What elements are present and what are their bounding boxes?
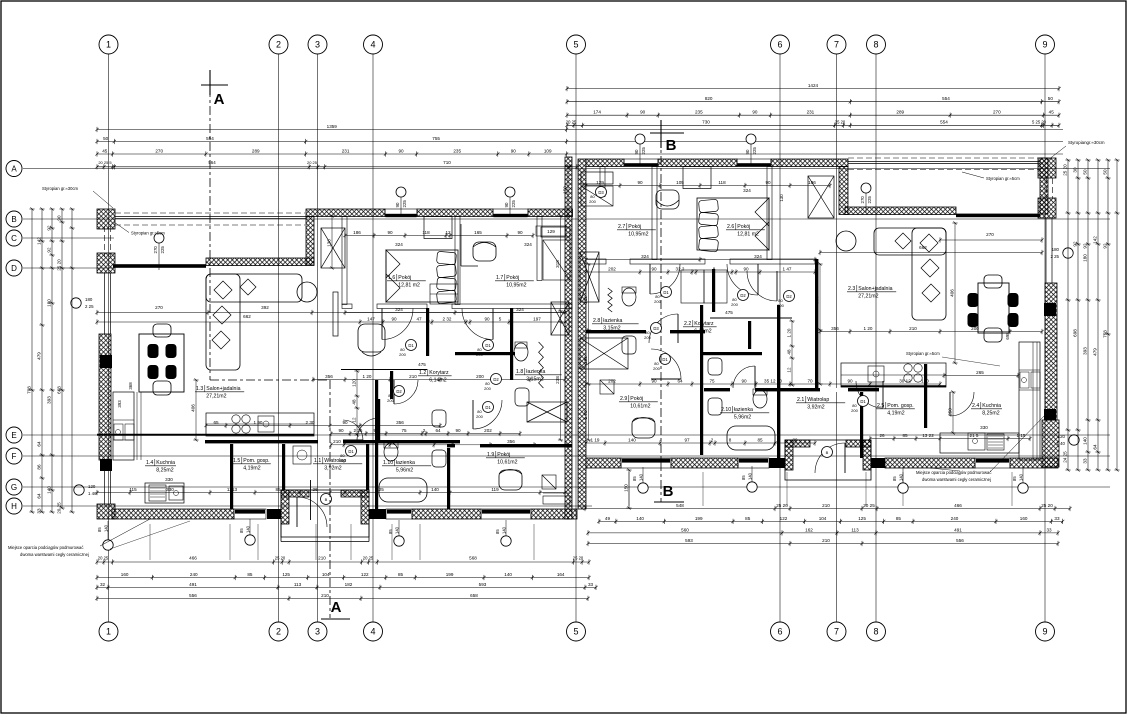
- svg-text:2 25: 2 25: [85, 304, 94, 309]
- svg-text:C: C: [11, 234, 17, 243]
- svg-text:140: 140: [1082, 437, 1087, 445]
- svg-text:1 40: 1 40: [88, 491, 97, 496]
- svg-text:2.3: 2.3: [848, 286, 855, 292]
- svg-text:240: 240: [190, 572, 198, 577]
- svg-text:2 35: 2 35: [354, 428, 363, 433]
- svg-text:2.8: 2.8: [593, 318, 600, 324]
- svg-text:174: 174: [593, 110, 601, 115]
- svg-text:B: B: [325, 497, 328, 502]
- svg-text:270: 270: [153, 246, 158, 254]
- svg-text:Styropian gr.≈30cm: Styropian gr.≈30cm: [42, 186, 79, 191]
- svg-text:Miejsce oparcia podciągów podm: Miejsce oparcia podciągów podmurować: [8, 545, 83, 550]
- svg-text:dwoma warstwami cegły ceramicz: dwoma warstwami cegły ceramicznej: [20, 552, 89, 557]
- svg-text:2 30: 2 30: [306, 420, 315, 425]
- svg-text:12,81 m2: 12,81 m2: [737, 232, 759, 238]
- svg-text:2.5: 2.5: [877, 403, 884, 409]
- svg-text:3,15m2: 3,15m2: [603, 326, 620, 332]
- svg-text:270: 270: [155, 148, 163, 153]
- svg-text:85: 85: [1012, 476, 1017, 481]
- svg-text:B: B: [826, 450, 829, 455]
- svg-text:200: 200: [484, 386, 491, 391]
- svg-text:548: 548: [676, 503, 684, 508]
- svg-text:85: 85: [239, 528, 244, 533]
- svg-text:97: 97: [684, 437, 690, 442]
- svg-text:D1: D1: [408, 343, 414, 348]
- svg-text:49: 49: [605, 516, 611, 521]
- svg-text:24 25: 24 25: [1062, 451, 1067, 463]
- svg-text:90: 90: [745, 149, 750, 154]
- svg-text:F: F: [12, 452, 17, 461]
- svg-text:1.7: 1.7: [496, 275, 503, 281]
- svg-text:406: 406: [190, 404, 195, 412]
- svg-text:5: 5: [573, 40, 578, 50]
- svg-text:33: 33: [588, 582, 594, 587]
- svg-text:197: 197: [533, 316, 541, 321]
- svg-text:393: 393: [46, 396, 51, 404]
- svg-text:łazienka: łazienka: [526, 369, 545, 375]
- svg-text:30: 30: [1072, 167, 1077, 173]
- svg-text:20 25: 20 25: [56, 502, 61, 514]
- svg-text:4: 4: [370, 40, 375, 50]
- svg-text:710: 710: [443, 160, 451, 165]
- svg-text:140: 140: [898, 473, 903, 481]
- svg-text:2.7: 2.7: [618, 224, 625, 230]
- svg-text:4: 4: [370, 627, 375, 637]
- svg-text:658: 658: [470, 593, 478, 598]
- svg-text:50: 50: [1048, 96, 1054, 101]
- svg-text:225: 225: [867, 196, 872, 204]
- svg-text:75: 75: [709, 378, 715, 383]
- svg-text:65: 65: [213, 420, 219, 425]
- svg-text:D2: D2: [493, 377, 499, 382]
- svg-text:406: 406: [949, 289, 954, 297]
- svg-text:10,95m2: 10,95m2: [506, 283, 526, 289]
- svg-text:20 25 5: 20 25 5: [98, 160, 112, 165]
- svg-text:90: 90: [637, 180, 643, 185]
- svg-text:140: 140: [636, 516, 644, 521]
- svg-text:564: 564: [208, 160, 216, 165]
- svg-text:554: 554: [940, 119, 948, 124]
- svg-text:6,14m2: 6,14m2: [694, 329, 711, 335]
- svg-text:85: 85: [97, 527, 102, 532]
- svg-text:210: 210: [321, 593, 329, 598]
- svg-text:D1: D1: [348, 449, 354, 454]
- svg-text:593: 593: [685, 538, 693, 543]
- svg-text:90: 90: [455, 428, 461, 433]
- svg-text:12: 12: [351, 417, 356, 423]
- svg-text:180: 180: [1082, 254, 1087, 262]
- svg-text:20 25: 20 25: [363, 556, 374, 561]
- svg-text:475: 475: [725, 310, 733, 315]
- svg-text:265: 265: [976, 370, 984, 375]
- svg-text:85: 85: [892, 476, 897, 481]
- svg-text:85: 85: [398, 572, 404, 577]
- svg-text:1.10: 1.10: [383, 460, 393, 466]
- svg-text:D3: D3: [653, 326, 659, 331]
- svg-text:1.9: 1.9: [487, 452, 494, 458]
- svg-text:238: 238: [814, 296, 819, 304]
- svg-text:560: 560: [681, 527, 689, 532]
- svg-text:Styropian gr.≈5cm: Styropian gr.≈5cm: [131, 231, 165, 236]
- svg-text:10,95m2: 10,95m2: [628, 232, 648, 238]
- svg-text:H: H: [11, 502, 17, 511]
- svg-text:200: 200: [644, 335, 651, 340]
- svg-text:dwoma warstwami cegły ceramicz: dwoma warstwami cegły ceramicznej: [922, 477, 991, 482]
- svg-text:2.9: 2.9: [620, 396, 627, 402]
- svg-text:2.6: 2.6: [727, 224, 734, 230]
- svg-text:2: 2: [711, 437, 714, 442]
- svg-text:200: 200: [339, 458, 346, 463]
- svg-text:225: 225: [160, 246, 165, 254]
- svg-text:129: 129: [547, 229, 555, 234]
- svg-text:2: 2: [423, 428, 426, 433]
- svg-text:D: D: [11, 264, 17, 273]
- svg-text:240: 240: [951, 516, 959, 521]
- svg-text:324: 324: [641, 254, 649, 259]
- svg-text:33: 33: [1082, 458, 1087, 464]
- svg-text:25 20: 25 20: [1062, 164, 1067, 176]
- svg-text:199: 199: [695, 516, 703, 521]
- svg-text:64: 64: [435, 428, 441, 433]
- svg-text:90: 90: [398, 148, 404, 153]
- svg-text:662: 662: [919, 245, 927, 250]
- svg-text:D1: D1: [485, 405, 491, 410]
- svg-text:2.10: 2.10: [721, 407, 731, 413]
- svg-text:160: 160: [1020, 516, 1028, 521]
- svg-text:1213: 1213: [227, 487, 238, 492]
- svg-text:20 25: 20 25: [863, 503, 875, 508]
- svg-text:210: 210: [822, 503, 830, 508]
- svg-text:1 20: 1 20: [363, 374, 372, 379]
- svg-text:85: 85: [745, 516, 751, 521]
- svg-text:1.1: 1.1: [314, 458, 321, 464]
- svg-text:85: 85: [896, 516, 902, 521]
- svg-text:104: 104: [819, 516, 827, 521]
- svg-text:568: 568: [469, 556, 477, 561]
- svg-text:668: 668: [56, 386, 61, 394]
- svg-text:130: 130: [779, 194, 784, 202]
- svg-text:324: 324: [743, 188, 751, 193]
- svg-text:D3: D3: [598, 190, 604, 195]
- svg-text:270: 270: [993, 110, 1001, 115]
- svg-text:200: 200: [731, 302, 738, 307]
- svg-text:698: 698: [1072, 329, 1077, 337]
- svg-text:200: 200: [589, 199, 596, 204]
- svg-text:35 12 30: 35 12 30: [764, 378, 782, 383]
- svg-text:142: 142: [36, 237, 41, 245]
- svg-text:6: 6: [777, 40, 782, 50]
- svg-text:łazienka: łazienka: [734, 407, 753, 413]
- svg-text:Kuchnia: Kuchnia: [982, 403, 1001, 409]
- svg-text:120: 120: [1058, 434, 1066, 439]
- svg-text:479: 479: [36, 352, 41, 360]
- svg-text:120: 120: [351, 379, 356, 387]
- svg-text:270: 270: [860, 196, 865, 204]
- svg-text:8,25m2: 8,25m2: [156, 468, 173, 474]
- svg-text:50: 50: [103, 136, 109, 141]
- svg-text:2: 2: [276, 627, 281, 637]
- svg-text:393: 393: [117, 400, 122, 408]
- svg-text:33: 33: [1046, 527, 1052, 532]
- svg-text:89: 89: [792, 437, 798, 442]
- svg-text:122: 122: [780, 516, 788, 521]
- svg-text:130: 130: [326, 239, 331, 247]
- svg-text:289: 289: [252, 148, 260, 153]
- svg-text:1 19: 1 19: [591, 437, 600, 442]
- svg-text:1 20: 1 20: [786, 328, 791, 337]
- svg-text:łazienka: łazienka: [396, 460, 415, 466]
- svg-text:50: 50: [1102, 169, 1107, 175]
- svg-text:2.2: 2.2: [684, 321, 691, 327]
- svg-text:90: 90: [743, 266, 749, 271]
- svg-text:140: 140: [504, 572, 512, 577]
- svg-text:140: 140: [628, 437, 636, 442]
- svg-text:200: 200: [476, 374, 484, 379]
- svg-text:92: 92: [1082, 243, 1087, 249]
- svg-text:A: A: [11, 164, 17, 173]
- svg-text:210: 210: [333, 439, 341, 444]
- svg-text:85: 85: [495, 529, 500, 534]
- svg-text:330: 330: [165, 477, 173, 482]
- svg-text:4,19m2: 4,19m2: [243, 466, 260, 472]
- svg-text:210: 210: [822, 538, 830, 543]
- svg-text:1.8: 1.8: [516, 369, 523, 375]
- svg-text:90: 90: [484, 316, 490, 321]
- svg-text:210: 210: [409, 374, 417, 379]
- svg-text:140: 140: [103, 524, 108, 532]
- svg-text:9: 9: [1042, 40, 1047, 50]
- svg-text:45: 45: [102, 148, 108, 153]
- svg-text:225: 225: [511, 200, 516, 208]
- svg-text:225: 225: [752, 147, 757, 155]
- svg-text:12,81 m2: 12,81 m2: [398, 283, 420, 289]
- svg-text:200: 200: [387, 398, 394, 403]
- svg-text:162: 162: [805, 527, 813, 532]
- svg-text:356: 356: [831, 326, 839, 331]
- svg-text:180: 180: [1052, 247, 1060, 252]
- svg-text:łazienka: łazienka: [603, 318, 622, 324]
- svg-text:356: 356: [325, 374, 333, 379]
- svg-text:70: 70: [807, 378, 813, 383]
- svg-text:270: 270: [155, 305, 163, 310]
- svg-text:466: 466: [189, 556, 197, 561]
- svg-text:D1: D1: [485, 343, 491, 348]
- svg-text:475: 475: [418, 362, 426, 367]
- svg-text:9: 9: [1042, 627, 1047, 637]
- svg-text:235: 235: [695, 110, 703, 115]
- svg-text:20 25: 20 25: [98, 556, 109, 561]
- svg-text:92: 92: [46, 247, 51, 253]
- svg-text:3,92m2: 3,92m2: [324, 466, 341, 472]
- svg-text:25 20: 25 20: [1041, 503, 1053, 508]
- svg-text:Styropiangr.≈30cm: Styropiangr.≈30cm: [1068, 140, 1105, 145]
- svg-text:330: 330: [166, 487, 174, 492]
- svg-text:B: B: [11, 215, 16, 224]
- svg-text:Salon+jadalnia: Salon+jadalnia: [858, 286, 892, 292]
- svg-text:D1: D1: [860, 399, 866, 404]
- svg-text:235: 235: [453, 148, 461, 153]
- svg-text:356: 356: [396, 420, 404, 425]
- svg-text:225: 225: [641, 147, 646, 155]
- svg-text:64: 64: [440, 439, 446, 444]
- svg-text:324: 324: [754, 254, 762, 259]
- svg-text:Pokój: Pokój: [737, 224, 750, 230]
- svg-text:Pokój: Pokój: [628, 224, 641, 230]
- svg-text:820: 820: [705, 96, 713, 101]
- svg-text:64: 64: [36, 493, 41, 499]
- svg-text:21 5: 21 5: [970, 433, 979, 438]
- svg-text:250: 250: [947, 408, 952, 416]
- svg-text:115: 115: [129, 487, 137, 492]
- svg-text:90: 90: [338, 428, 344, 433]
- svg-text:75: 75: [409, 439, 415, 444]
- svg-text:324: 324: [395, 242, 403, 247]
- svg-text:86: 86: [36, 464, 41, 470]
- svg-text:33: 33: [36, 508, 41, 514]
- svg-text:200: 200: [654, 299, 661, 304]
- svg-text:120: 120: [88, 484, 96, 489]
- svg-text:90: 90: [640, 110, 646, 115]
- svg-text:122: 122: [361, 572, 369, 577]
- svg-text:202: 202: [484, 428, 492, 433]
- svg-text:4,19m2: 4,19m2: [887, 411, 904, 417]
- svg-text:25 20: 25 20: [835, 119, 846, 124]
- svg-text:8: 8: [873, 627, 878, 637]
- svg-text:2.4: 2.4: [972, 403, 979, 409]
- svg-text:Kuchnia: Kuchnia: [156, 460, 175, 466]
- svg-text:2 00: 2 00: [363, 439, 372, 444]
- svg-text:140: 140: [501, 526, 506, 534]
- svg-text:150: 150: [562, 186, 567, 194]
- svg-text:1424: 1424: [808, 83, 819, 88]
- svg-text:1 15: 1 15: [1017, 433, 1026, 438]
- svg-text:1.2: 1.2: [419, 370, 426, 376]
- svg-text:7: 7: [834, 40, 839, 50]
- svg-text:356: 356: [507, 439, 515, 444]
- svg-text:90: 90: [517, 230, 523, 235]
- svg-text:8: 8: [713, 266, 716, 271]
- svg-text:1 20: 1 20: [864, 326, 873, 331]
- svg-text:25 20: 25 20: [275, 556, 286, 561]
- svg-text:5,96m2: 5,96m2: [734, 415, 751, 421]
- svg-text:90: 90: [395, 202, 400, 207]
- svg-text:200: 200: [476, 414, 483, 419]
- svg-text:E: E: [11, 431, 16, 440]
- svg-text:B: B: [666, 137, 677, 154]
- svg-text:142: 142: [1092, 236, 1097, 244]
- svg-text:190: 190: [921, 378, 929, 383]
- svg-text:798: 798: [26, 386, 31, 394]
- svg-text:Korytarz: Korytarz: [429, 370, 449, 376]
- svg-text:45: 45: [1049, 110, 1055, 115]
- svg-text:318: 318: [583, 296, 588, 304]
- svg-text:Pokój: Pokój: [630, 396, 643, 402]
- svg-text:90: 90: [651, 378, 657, 383]
- svg-text:1359: 1359: [327, 124, 338, 129]
- svg-text:13 22: 13 22: [922, 433, 934, 438]
- svg-text:5: 5: [499, 316, 502, 321]
- svg-text:Miejsce oparcia podciągów podm: Miejsce oparcia podciągów podmurować: [916, 470, 991, 475]
- svg-text:289: 289: [896, 110, 904, 115]
- svg-text:8,25m2: 8,25m2: [982, 411, 999, 417]
- svg-text:593: 593: [479, 582, 487, 587]
- svg-text:10,61m2: 10,61m2: [630, 404, 650, 410]
- svg-text:479: 479: [1092, 348, 1097, 356]
- svg-text:85: 85: [275, 487, 281, 492]
- svg-text:G: G: [11, 483, 17, 492]
- svg-text:210: 210: [909, 326, 917, 331]
- svg-text:200: 200: [777, 303, 784, 308]
- svg-text:491: 491: [954, 527, 962, 532]
- svg-text:Salon+jadalnia: Salon+jadalnia: [206, 386, 240, 392]
- svg-text:140: 140: [1018, 473, 1023, 481]
- svg-text:556: 556: [189, 593, 197, 598]
- svg-text:147: 147: [367, 316, 375, 321]
- svg-text:D2: D2: [740, 293, 746, 298]
- svg-text:125: 125: [858, 516, 866, 521]
- svg-text:140: 140: [46, 486, 51, 494]
- svg-text:90: 90: [504, 202, 509, 207]
- svg-text:47: 47: [416, 316, 422, 321]
- svg-text:200: 200: [399, 352, 406, 357]
- svg-text:25 20: 25 20: [573, 556, 584, 561]
- svg-text:Styropian gr.≈5cm: Styropian gr.≈5cm: [986, 176, 1020, 181]
- svg-text:160: 160: [121, 572, 129, 577]
- svg-text:2 32: 2 32: [443, 316, 452, 321]
- svg-text:85: 85: [741, 475, 746, 480]
- svg-text:64: 64: [1092, 444, 1097, 450]
- svg-text:32: 32: [100, 582, 106, 587]
- svg-text:109: 109: [544, 148, 552, 153]
- svg-text:1.4: 1.4: [146, 460, 153, 466]
- svg-text:200: 200: [971, 326, 979, 331]
- svg-text:104: 104: [322, 572, 330, 577]
- svg-text:730: 730: [702, 119, 710, 124]
- svg-text:125: 125: [282, 572, 290, 577]
- svg-text:90: 90: [651, 266, 657, 271]
- svg-text:2: 2: [276, 40, 281, 50]
- svg-text:125: 125: [376, 487, 384, 492]
- svg-text:186: 186: [808, 180, 816, 185]
- svg-text:90: 90: [765, 180, 771, 185]
- svg-text:324: 324: [516, 307, 524, 312]
- svg-text:698: 698: [1005, 332, 1010, 340]
- svg-text:1.6: 1.6: [388, 275, 395, 281]
- svg-text:12: 12: [445, 230, 451, 235]
- svg-text:75: 75: [401, 428, 407, 433]
- svg-text:180: 180: [85, 297, 93, 302]
- svg-text:B: B: [663, 483, 674, 500]
- svg-text:6: 6: [777, 627, 782, 637]
- svg-text:3: 3: [315, 627, 320, 637]
- svg-text:85: 85: [757, 437, 763, 442]
- svg-text:3: 3: [315, 40, 320, 50]
- svg-text:1 47: 1 47: [783, 266, 792, 271]
- svg-text:8: 8: [873, 40, 878, 50]
- svg-text:5: 5: [573, 627, 578, 637]
- svg-text:85: 85: [902, 433, 908, 438]
- svg-text:113: 113: [294, 582, 302, 587]
- svg-text:140: 140: [638, 473, 643, 481]
- svg-text:119: 119: [491, 487, 499, 492]
- svg-text:26: 26: [879, 433, 885, 438]
- svg-text:3,92m2: 3,92m2: [807, 405, 824, 411]
- svg-text:200: 200: [851, 408, 858, 413]
- svg-text:662: 662: [243, 314, 251, 319]
- svg-text:12: 12: [786, 367, 791, 373]
- svg-text:758: 758: [1102, 330, 1107, 338]
- svg-text:140: 140: [245, 525, 250, 533]
